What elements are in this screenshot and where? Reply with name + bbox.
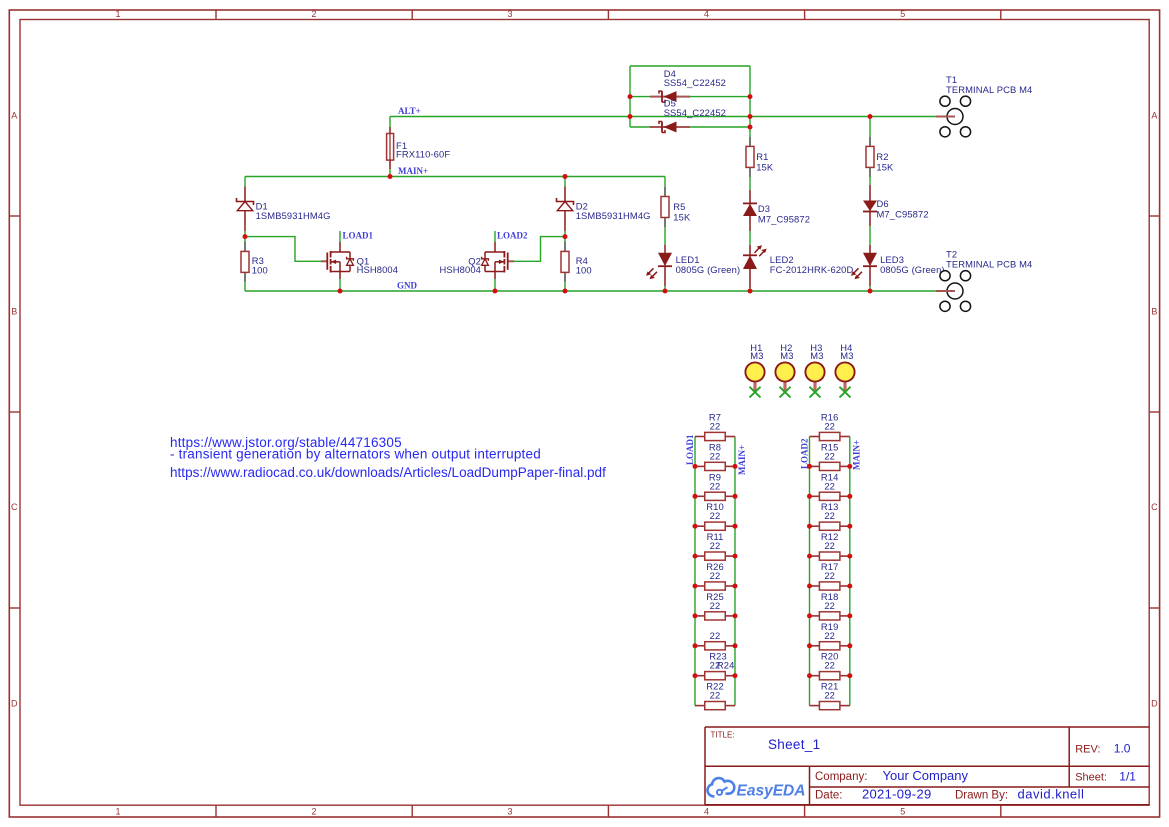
svg-text:M7_C95872: M7_C95872 [758, 214, 810, 225]
svg-text:3: 3 [507, 9, 512, 19]
svg-text:david.knell: david.knell [1018, 787, 1085, 802]
junction ladder 2 row 3 [807, 494, 812, 499]
junction ladder 1 row 8 [693, 643, 698, 648]
wire ladder 2 right rail (MAIN+) [849, 437, 851, 706]
junction ladder 1 row 3 [693, 494, 698, 499]
wire ladder 1 left rail (LOAD1) [694, 437, 696, 706]
junction ladder 1 row 9 [693, 673, 698, 678]
svg-text:5: 5 [900, 807, 905, 817]
svg-text:3: 3 [507, 807, 512, 817]
svg-text:22: 22 [710, 570, 721, 581]
resistor R10 (ladder 1 row 4) [695, 525, 705, 527]
svg-text:22: 22 [710, 540, 721, 551]
svg-text:0805G (Green): 0805G (Green) [880, 264, 945, 275]
svg-text:Drawn By:: Drawn By: [955, 790, 1008, 802]
junction ALT+/loop right [748, 114, 753, 119]
LED LED1 [664, 245, 666, 253]
junction D4 right [748, 94, 753, 99]
junction GND/R4 [563, 289, 568, 294]
terminal T2 [940, 271, 950, 281]
mounting hole H4 [843, 382, 846, 392]
resistor R19 (ladder 2 row 8) [810, 645, 820, 647]
svg-text:5: 5 [900, 9, 905, 19]
svg-text:SS54_C22452: SS54_C22452 [664, 107, 726, 118]
junction ladder 1 row 7 [693, 613, 698, 618]
svg-text:22: 22 [824, 540, 835, 551]
terminal T1 [940, 96, 950, 106]
wire D4/D5 loop [630, 65, 750, 67]
junction ladder 2 row 6 [807, 584, 812, 589]
svg-text:15K: 15K [756, 162, 774, 173]
svg-text:22: 22 [710, 450, 721, 461]
svg-text:LOAD1: LOAD1 [343, 231, 374, 241]
svg-text:22: 22 [824, 630, 835, 641]
transistor Q1 [339, 242, 341, 252]
svg-text:22: 22 [710, 600, 721, 611]
svg-text:22: 22 [824, 510, 835, 521]
svg-text:Date:: Date: [815, 790, 843, 802]
svg-text:MAIN+: MAIN+ [398, 166, 428, 176]
wire Q2 gate [514, 237, 565, 262]
resistor R14 (ladder 2 row 3) [810, 495, 820, 497]
wire F1 column [389, 117, 391, 177]
svg-text:A: A [1151, 111, 1157, 121]
svg-text:C: C [1151, 502, 1158, 512]
junction GND/Q1 [338, 289, 343, 294]
wire ladder 1 right rail (MAIN+) [734, 437, 736, 706]
svg-text:SS54_C22452: SS54_C22452 [664, 77, 726, 88]
svg-text:M3: M3 [750, 350, 763, 361]
svg-text:4: 4 [704, 807, 709, 817]
svg-text:TERMINAL PCB M4: TERMINAL PCB M4 [946, 259, 1032, 270]
resistor R4 [564, 242, 566, 252]
diode D4 [650, 96, 690, 98]
junction GND/LED3 [868, 289, 873, 294]
junction LOAD1 node [243, 234, 248, 239]
wire ladder 2 left rail (LOAD2) [809, 437, 811, 706]
no-connect flag H3 [810, 387, 821, 398]
junction ladder 2 row 8 [807, 643, 812, 648]
resistor R13 (ladder 2 row 4) [810, 525, 820, 527]
resistor R8 (ladder 1 row 2) [695, 465, 705, 467]
svg-text:HSH8004: HSH8004 [357, 264, 399, 275]
svg-text:1.0: 1.0 [1114, 742, 1131, 756]
svg-text:B: B [1151, 307, 1157, 317]
svg-text:A: A [11, 111, 17, 121]
svg-text:22: 22 [824, 600, 835, 611]
svg-text:22: 22 [824, 660, 835, 671]
wire Q1 gate [245, 237, 321, 262]
resistor R18 (ladder 2 row 7) [810, 615, 820, 617]
svg-text:ALT+: ALT+ [398, 106, 421, 116]
svg-text:https://www.radiocad.co.uk/dow: https://www.radiocad.co.uk/downloads/Art… [170, 465, 606, 480]
wire MAIN+ horizontal [245, 176, 665, 178]
zener diode D2 [564, 187, 566, 202]
resistor R7 (ladder 1 row 1) [695, 436, 705, 438]
svg-text:1/1: 1/1 [1119, 770, 1136, 784]
mounting hole H2 [783, 382, 786, 392]
svg-text:100: 100 [252, 265, 268, 276]
junction ladder 2 row 2 [807, 464, 812, 469]
svg-text:22: 22 [710, 690, 721, 701]
resistor R25 (ladder 1 row 7) [695, 615, 705, 617]
wire R5/LED1 column [664, 177, 666, 292]
svg-text:M3: M3 [840, 350, 853, 361]
resistor R26 (ladder 1 row 6) [695, 585, 705, 587]
resistor R5 [664, 187, 666, 197]
resistor R3 [244, 242, 246, 252]
resistor R15 (ladder 2 row 2) [810, 465, 820, 467]
svg-text:100: 100 [576, 265, 592, 276]
svg-text:22: 22 [824, 570, 835, 581]
junction ladder 2 row 7 [807, 613, 812, 618]
junction ladder 1 row 6 [693, 584, 698, 589]
junction D5/R1 [748, 125, 753, 130]
svg-text:MAIN+: MAIN+ [852, 440, 862, 470]
wire LOAD1 stub [339, 231, 341, 252]
svg-text:22: 22 [710, 630, 721, 641]
svg-text:1SMB5931HM4G: 1SMB5931HM4G [576, 210, 651, 221]
wire Q1 source to GND [339, 272, 341, 292]
wire D1/R3 column [244, 177, 246, 292]
junction ladder 2 row 9 [807, 673, 812, 678]
no-connect flag H1 [750, 387, 761, 398]
wire ALT+ horizontal [390, 116, 936, 118]
svg-text:M7_C95872: M7_C95872 [877, 208, 929, 219]
svg-text:2: 2 [311, 9, 316, 19]
title block [705, 726, 1149, 728]
svg-text:M3: M3 [780, 350, 793, 361]
svg-text:- transient generation by alte: - transient generation by alternators wh… [170, 447, 541, 462]
junction ladder 1 row 2 [693, 464, 698, 469]
svg-text:22: 22 [824, 480, 835, 491]
svg-text:15K: 15K [876, 162, 894, 173]
svg-text:M3: M3 [810, 350, 823, 361]
junction MAIN+/D2 [563, 174, 568, 179]
svg-text:1SMB5931HM4G: 1SMB5931HM4G [256, 210, 331, 221]
svg-text:GND: GND [397, 281, 418, 291]
LED LED3 [869, 245, 871, 253]
svg-text:Company:: Company: [815, 771, 867, 783]
resistor R21 (ladder 2 row 10) [810, 705, 820, 707]
wire LOAD2 stub [494, 231, 496, 252]
mounting hole H3 [813, 382, 816, 392]
svg-text:22: 22 [824, 690, 835, 701]
resistor R12 (ladder 2 row 5) [810, 555, 820, 557]
junction ALT+/loop left [628, 114, 633, 119]
svg-text:D: D [1151, 698, 1158, 708]
svg-text:FRX110-60F: FRX110-60F [396, 149, 450, 160]
svg-text:HSH8004: HSH8004 [440, 264, 482, 275]
svg-text:EasyEDA: EasyEDA [737, 783, 806, 800]
svg-text:B: B [11, 307, 17, 317]
svg-text:22: 22 [824, 450, 835, 461]
svg-text:D: D [11, 698, 18, 708]
svg-text:LOAD2: LOAD2 [497, 230, 528, 240]
svg-text:22: 22 [824, 421, 835, 432]
resistor R22 (ladder 1 row 10) [695, 705, 705, 707]
svg-text:Sheet_1: Sheet_1 [768, 737, 820, 752]
svg-text:LOAD1: LOAD1 [685, 434, 695, 465]
svg-text:22: 22 [710, 480, 721, 491]
svg-text:MAIN+: MAIN+ [737, 445, 747, 475]
svg-text:TITLE:: TITLE: [711, 731, 735, 740]
svg-text:C: C [11, 502, 18, 512]
svg-text:TERMINAL PCB M4: TERMINAL PCB M4 [946, 84, 1032, 95]
wire GND horizontal [245, 290, 936, 292]
svg-text:4: 4 [704, 9, 709, 19]
wire Q2 source to GND [494, 272, 496, 292]
svg-text:R5: R5 [673, 201, 685, 212]
svg-text:R24: R24 [717, 660, 735, 671]
svg-text:22: 22 [710, 510, 721, 521]
svg-text:15K: 15K [673, 212, 691, 223]
resistor R23 (ladder 1 row 9) [695, 675, 705, 677]
wire D2/R4 column [564, 177, 566, 292]
junction GND/LED1 [663, 289, 668, 294]
resistor R17 (ladder 2 row 6) [810, 585, 820, 587]
svg-text:R2: R2 [876, 151, 888, 162]
wire R2/D6/LED3 column [869, 117, 871, 292]
diode D5 [650, 126, 690, 128]
svg-text:Sheet:: Sheet: [1075, 772, 1107, 784]
junction MAIN+/F1 [388, 174, 393, 179]
junction GND/Q2 [493, 289, 498, 294]
resistor R1 [749, 137, 751, 147]
diode D6 [869, 185, 871, 201]
junction GND/LED2 [748, 289, 753, 294]
svg-text:22: 22 [710, 421, 721, 432]
resistor R16 (ladder 2 row 1) [810, 436, 820, 438]
svg-text:2: 2 [311, 807, 316, 817]
junction ALT+/R2 [868, 114, 873, 119]
EasyEDA logo [708, 778, 735, 796]
junction D4 left [628, 94, 633, 99]
junction ladder 2 row 5 [807, 554, 812, 559]
svg-text:0805G (Green): 0805G (Green) [676, 264, 741, 275]
fuse F1 [389, 127, 391, 134]
junction ladder 1 row 5 [693, 554, 698, 559]
mounting hole H1 [753, 382, 756, 392]
diode D3 [749, 190, 751, 203]
svg-text:R1: R1 [756, 151, 768, 162]
junction ladder 2 row 4 [807, 524, 812, 529]
svg-text:FC-2012HRK-620D: FC-2012HRK-620D [770, 264, 854, 275]
junction ladder 1 row 4 [693, 524, 698, 529]
resistor R2 [869, 137, 871, 147]
svg-text:1: 1 [115, 807, 120, 817]
svg-text:LOAD2: LOAD2 [799, 438, 809, 469]
svg-text:Your Company: Your Company [883, 768, 969, 783]
resistor R11 (ladder 1 row 5) [695, 555, 705, 557]
resistor R24/unnamed (ladder 1 row 8) [695, 645, 705, 647]
no-connect flag H2 [780, 387, 791, 398]
svg-text:1: 1 [115, 9, 120, 19]
transistor Q2 [494, 242, 496, 252]
svg-text:2021-09-29: 2021-09-29 [862, 787, 932, 802]
resistor R9 (ladder 1 row 3) [695, 495, 705, 497]
LED LED2 [749, 245, 751, 255]
no-connect flag H4 [840, 387, 851, 398]
wire R1/D3/LED2 column [749, 127, 751, 291]
zener diode D1 [244, 187, 246, 202]
svg-text:REV:: REV: [1075, 744, 1100, 756]
junction LOAD2 node [563, 234, 568, 239]
resistor R20 (ladder 2 row 9) [810, 675, 820, 677]
